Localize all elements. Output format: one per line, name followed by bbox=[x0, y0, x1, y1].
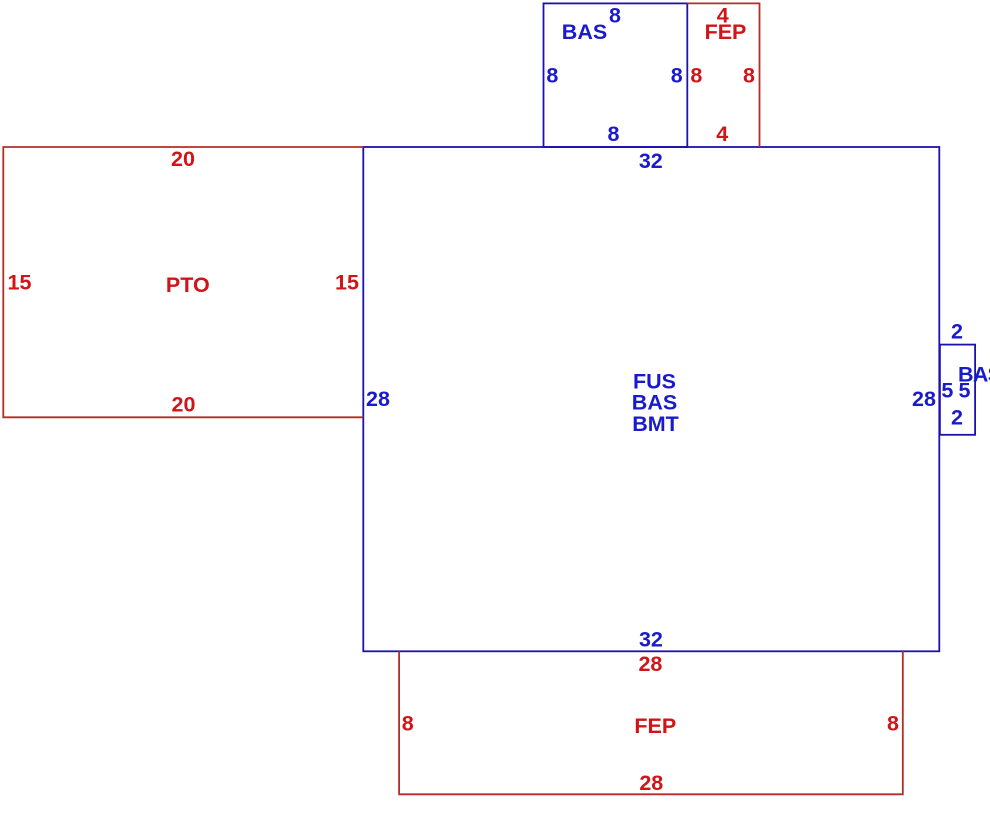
svg-text:8: 8 bbox=[743, 63, 755, 87]
svg-text:2: 2 bbox=[951, 320, 963, 344]
room BAS top rectangle bbox=[544, 3, 688, 147]
room small BAS rectangle right bbox=[940, 345, 975, 435]
svg-text:FEP: FEP bbox=[634, 714, 676, 738]
svg-text:32: 32 bbox=[639, 149, 663, 173]
svg-text:32: 32 bbox=[639, 627, 663, 651]
svg-text:4: 4 bbox=[717, 4, 729, 28]
svg-text:15: 15 bbox=[335, 270, 359, 294]
svg-text:8: 8 bbox=[402, 711, 414, 735]
svg-text:5: 5 bbox=[941, 379, 953, 403]
svg-text:PTO: PTO bbox=[166, 273, 210, 297]
svg-text:20: 20 bbox=[171, 147, 195, 171]
svg-text:BAS: BAS bbox=[562, 20, 607, 44]
svg-text:8: 8 bbox=[887, 711, 899, 735]
room PTO rectangle (red top+left+bottom edges) bbox=[3, 147, 363, 417]
svg-text:28: 28 bbox=[366, 387, 390, 411]
svg-text:20: 20 bbox=[172, 393, 196, 417]
svg-text:5: 5 bbox=[959, 379, 971, 403]
svg-text:28: 28 bbox=[639, 771, 663, 795]
svg-text:8: 8 bbox=[608, 122, 620, 146]
svg-text:2: 2 bbox=[951, 406, 963, 430]
room FEP bottom rectangle (red left+bottom+right edges) bbox=[399, 651, 903, 794]
svg-text:4: 4 bbox=[716, 122, 728, 146]
svg-text:BMT: BMT bbox=[632, 412, 679, 436]
svg-text:8: 8 bbox=[546, 63, 558, 87]
svg-text:28: 28 bbox=[638, 652, 662, 676]
svg-text:8: 8 bbox=[690, 63, 702, 87]
svg-text:8: 8 bbox=[671, 63, 683, 87]
room FUS/BAS/BMT main rectangle bbox=[363, 147, 939, 651]
svg-text:15: 15 bbox=[8, 270, 32, 294]
room FEP top rectangle (red top+right edges) bbox=[687, 3, 759, 147]
svg-text:28: 28 bbox=[912, 387, 936, 411]
svg-text:8: 8 bbox=[609, 4, 621, 28]
